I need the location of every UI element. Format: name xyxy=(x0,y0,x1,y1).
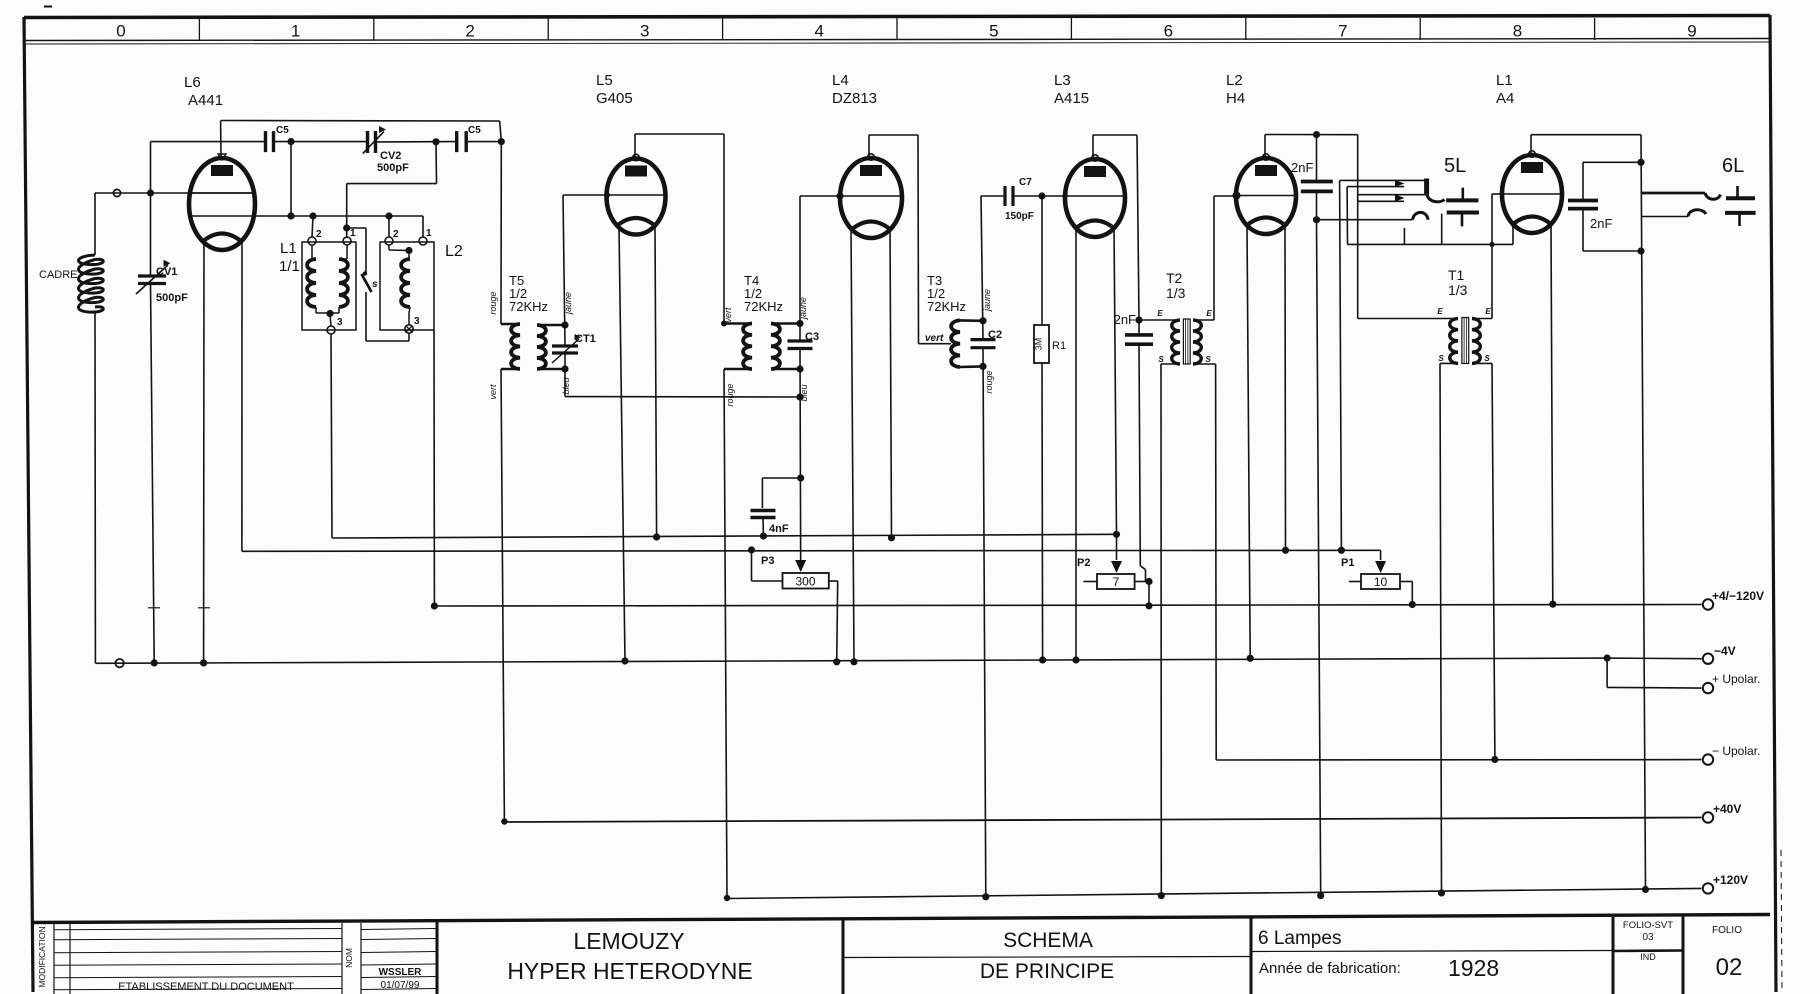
svg-text:C5: C5 xyxy=(468,125,481,136)
node 2nF L1 bottom junction xyxy=(1637,247,1644,254)
svg-text:L1: L1 xyxy=(1496,72,1513,89)
wire 5L top line xyxy=(1340,179,1427,181)
wire 4nF branch xyxy=(762,477,800,479)
svg-text:5: 5 xyxy=(989,22,998,41)
svg-text:rouge: rouge xyxy=(984,370,994,393)
svg-text:rouge: rouge xyxy=(725,383,735,406)
terminal circle on grid wire xyxy=(113,189,120,196)
svg-text:+ Upolar.: + Upolar. xyxy=(1712,672,1760,686)
wire L4 plate line right xyxy=(869,134,918,136)
svg-text:2: 2 xyxy=(316,229,322,240)
svg-text:L1: L1 xyxy=(280,240,297,257)
svg-text:9: 9 xyxy=(1687,22,1696,41)
inductor CADRE frame antenna xyxy=(79,255,104,312)
capacitor 2nF L2 xyxy=(1301,180,1333,184)
capacitor 2nF L1 xyxy=(1568,199,1598,203)
wire C5 to CV2 xyxy=(274,141,368,143)
node -4V L4 filament xyxy=(850,658,857,665)
terminal +4/-120V xyxy=(1703,599,1713,609)
capacitor CV1 plates xyxy=(138,274,166,277)
node -4V L5 filament xyxy=(621,657,628,664)
wire cadre top lead xyxy=(94,193,96,255)
node anode-C5-T5 junction xyxy=(498,138,505,145)
terminal - Upolar xyxy=(1703,754,1713,764)
svg-text:72KHz: 72KHz xyxy=(509,299,548,314)
node +120V 2nF L2 xyxy=(1317,892,1324,899)
node P3 on -4V rail xyxy=(833,658,840,665)
node +120V L1 plate xyxy=(1642,886,1649,893)
node 4nF branch junction xyxy=(797,474,804,481)
svg-text:2: 2 xyxy=(393,229,399,240)
svg-text:2: 2 xyxy=(465,22,474,41)
scan dash top left xyxy=(44,6,52,8)
node L3 plate T2 junction xyxy=(1135,316,1142,323)
wire T3 rouge down to +120V xyxy=(983,348,986,897)
wire 2nF L3 top stub xyxy=(1138,320,1140,335)
capacitor C5 first xyxy=(264,131,267,152)
wire pin2 jog to coil top xyxy=(388,245,390,250)
pin mark L4 grid xyxy=(837,193,843,199)
wire L2 anode up xyxy=(1264,135,1266,159)
svg-text:C7: C7 xyxy=(1019,177,1032,188)
inductor T5 secondary xyxy=(537,325,546,369)
wire L6 grid line xyxy=(95,192,255,194)
node T3 top xyxy=(979,317,986,324)
wire 2nF L2 bottom stub xyxy=(1316,191,1318,219)
pin mark L1 grid xyxy=(1500,192,1505,197)
ruler band bottom line xyxy=(25,39,1770,41)
svg-text:jaune: jaune xyxy=(982,289,992,312)
svg-text:E: E xyxy=(1206,309,1212,318)
wire 5L feed lower xyxy=(1358,200,1404,202)
svg-text:2nF: 2nF xyxy=(1291,160,1313,175)
wire 5L bottom rail xyxy=(1348,243,1514,245)
modification table rows xyxy=(54,929,342,930)
svg-text:−4V: −4V xyxy=(1714,644,1736,658)
svg-text:vert: vert xyxy=(723,307,733,323)
potentiometer P1 box xyxy=(1361,574,1400,589)
wire T5 primary bottom down xyxy=(501,369,504,822)
wire T1 E left feed xyxy=(1358,318,1458,320)
wire L5 plate down to T4 xyxy=(723,134,725,324)
svg-text:500pF: 500pF xyxy=(377,162,409,174)
inductor L1 primary xyxy=(307,259,316,307)
wire 6L feed lower xyxy=(1642,216,1688,218)
inductor L2 winding xyxy=(401,259,410,307)
node C5-cathode branch xyxy=(287,138,294,145)
inductor T3 winding xyxy=(951,320,960,367)
wire L5 grid vertical xyxy=(563,195,565,346)
svg-text:L2: L2 xyxy=(1226,72,1243,89)
node rail L1 filament xyxy=(1549,601,1556,608)
pin 2 of L1 xyxy=(308,237,316,245)
pin 1 of L2 xyxy=(419,237,427,245)
wire +40V rail xyxy=(504,818,1701,823)
pin 2 of L2 xyxy=(385,237,393,245)
wire T2 E right up to L2 grid xyxy=(1193,319,1214,321)
node 2nF L2 bottom junction xyxy=(1313,216,1320,223)
wire L4 filament right down xyxy=(890,227,892,538)
wire common to pin3 xyxy=(330,314,331,327)
wire +4/-120V rail xyxy=(434,605,1701,607)
pin mark L2 grid xyxy=(1233,192,1239,198)
capacitor CV2 arrow xyxy=(363,132,384,154)
svg-text:E: E xyxy=(1485,307,1491,316)
folio-svt cell divider xyxy=(1613,949,1683,952)
svg-text:CT1: CT1 xyxy=(575,333,596,345)
svg-text:bleu: bleu xyxy=(561,377,571,394)
tube L1 A4 xyxy=(1502,155,1562,233)
lampes cell divider xyxy=(1251,951,1613,952)
wire AVC line T5 to T4 xyxy=(565,396,800,398)
electrode bar 5L xyxy=(1424,179,1429,195)
core T1 xyxy=(1462,318,1469,364)
wire P3 right lead xyxy=(829,580,838,582)
pin mark L5 grid xyxy=(605,192,610,197)
wire 6L feed upper xyxy=(1642,192,1705,195)
node +120V corner xyxy=(724,895,730,901)
svg-text:C5: C5 xyxy=(276,125,289,136)
svg-text:1: 1 xyxy=(291,22,300,41)
wire P2 right lead xyxy=(1135,581,1149,583)
wire T2 E left lead xyxy=(1139,319,1180,321)
wire 5L outer left vertical xyxy=(1340,180,1342,550)
svg-text:A415: A415 xyxy=(1054,90,1089,107)
wire L4 anode up xyxy=(868,135,870,158)
wire C7 to L3 grid xyxy=(1013,195,1065,197)
wire T4 bleu vertical xyxy=(799,349,802,572)
wire L2 filament left down xyxy=(1247,227,1250,658)
svg-text:150pF: 150pF xyxy=(1005,211,1034,222)
pin 3 of L2 earthed xyxy=(405,325,413,333)
node rail start L2 box xyxy=(431,602,438,609)
svg-text:CV1: CV1 xyxy=(156,266,177,278)
wire T1 S right down to -Upolar xyxy=(1472,362,1492,364)
wire L1 plate down to +120V xyxy=(1641,135,1646,890)
node cathode-C5 junction xyxy=(287,212,294,219)
wire L4 filament left down xyxy=(851,227,854,662)
svg-text:3M: 3M xyxy=(1034,338,1044,351)
svg-text:DZ813: DZ813 xyxy=(832,90,877,107)
wire T2 S right down to -Upolar xyxy=(1193,363,1216,365)
wire T1 S left down to +120V xyxy=(1440,362,1458,364)
border frame outer xyxy=(24,16,1770,18)
wire L3 plate line right xyxy=(1093,134,1137,136)
svg-text:A441: A441 xyxy=(188,92,223,109)
wire CV1 bottom to -4V rail xyxy=(151,284,155,663)
terminal + Upolar xyxy=(1703,683,1713,693)
ruler cell dividers xyxy=(198,18,200,40)
wire grid branch down-left jog xyxy=(435,142,438,184)
arrow 5L upper xyxy=(1395,180,1405,187)
wire T1 E right to L1 grid xyxy=(1472,318,1492,320)
svg-text:CADRE: CADRE xyxy=(39,269,78,281)
svg-text:7: 7 xyxy=(1338,22,1347,41)
inductor L1 secondary xyxy=(339,259,348,307)
svg-text:6L: 6L xyxy=(1722,155,1744,177)
wire P3 left lead xyxy=(752,580,783,582)
node 2nF L2 tap xyxy=(1313,131,1320,138)
capacitor 4nF xyxy=(751,509,776,512)
svg-text:4nF: 4nF xyxy=(769,523,789,535)
svg-text:E: E xyxy=(1157,309,1163,318)
wire coil bottom to pin3 xyxy=(408,313,410,325)
svg-text:S: S xyxy=(1438,354,1444,363)
wire pin1 from grid jog xyxy=(346,237,348,238)
svg-text:1/3: 1/3 xyxy=(1166,285,1186,301)
svg-text:R1: R1 xyxy=(1052,340,1066,352)
transformer L2 box xyxy=(380,242,434,330)
wire L3 anode up xyxy=(1092,135,1094,159)
svg-text:SCHEMA: SCHEMA xyxy=(1003,929,1093,952)
svg-text:1: 1 xyxy=(426,228,432,239)
svg-text:IND: IND xyxy=(1640,952,1656,962)
svg-text:MODIFICATION: MODIFICATION xyxy=(37,926,47,987)
svg-text:− Upolar.: − Upolar. xyxy=(1712,744,1760,758)
wire CV2 to C5 second xyxy=(376,141,457,143)
wire L6 cathode corner to pin1 xyxy=(422,216,424,237)
svg-text:HYPER HETERODYNE: HYPER HETERODYNE xyxy=(507,958,752,984)
svg-text:vert: vert xyxy=(925,333,944,344)
svg-text:2nF: 2nF xyxy=(1590,216,1612,231)
wire line A pin3 bus xyxy=(332,534,1117,538)
wire L1 pin3 down xyxy=(331,334,332,538)
svg-text:LEMOUZY: LEMOUZY xyxy=(573,928,684,954)
svg-text:L2: L2 xyxy=(445,243,463,260)
wire L2 box right side down to +4V rail xyxy=(433,330,435,606)
svg-text:S: S xyxy=(1484,354,1490,363)
svg-text:P2: P2 xyxy=(1077,557,1090,569)
wire 2nF L1 top stub xyxy=(1583,161,1641,163)
svg-text:S: S xyxy=(1158,355,1164,364)
wire L4 grid vertical upper xyxy=(799,196,801,341)
svg-text:6: 6 xyxy=(1164,22,1173,41)
wire 4nF bottom to line A xyxy=(762,518,764,537)
tick artifact on CV1 drop xyxy=(148,607,160,609)
hook 5L lower xyxy=(1413,212,1429,219)
tube L2 H4 xyxy=(1236,158,1296,234)
node +120V T2 xyxy=(1158,892,1165,899)
svg-text:01/07/99: 01/07/99 xyxy=(381,980,420,991)
wire L2 anode feed vertical xyxy=(1357,135,1359,319)
svg-text:A4: A4 xyxy=(1496,90,1514,107)
capacitor CT1 arrow xyxy=(552,339,579,363)
node L1 pin1 branch xyxy=(343,224,350,231)
svg-text:1: 1 xyxy=(350,228,356,239)
wire L6 anode up xyxy=(220,121,222,159)
node T4 primary top xyxy=(721,321,727,327)
svg-text:CV2: CV2 xyxy=(380,150,401,162)
node line B L2 filament xyxy=(1282,547,1289,554)
node T4 secondary bottom xyxy=(796,365,803,372)
tube L6 A441 xyxy=(189,158,255,250)
node T5 secondary bottom xyxy=(561,365,568,372)
svg-text:L4: L4 xyxy=(832,72,849,89)
svg-text:NOM: NOM xyxy=(344,948,354,968)
wire 5L second rect top xyxy=(1347,186,1404,188)
hook 6L upper xyxy=(1705,193,1721,199)
pin mark L3 grid xyxy=(1063,194,1068,199)
transformer L1 box xyxy=(302,242,356,330)
svg-text:S: S xyxy=(1205,355,1211,364)
wire L1 plate line right xyxy=(1531,134,1641,136)
wire L6 filament right down to line B xyxy=(241,242,243,551)
svg-text:L6: L6 xyxy=(184,74,201,91)
title block divider verticals xyxy=(436,922,439,994)
wire T3 jaune up to L3 grid xyxy=(981,196,983,340)
tube L5 G405 xyxy=(607,159,666,235)
tube L3 A415 xyxy=(1065,159,1125,237)
svg-text:G405: G405 xyxy=(596,90,633,107)
arrow P3 wiper xyxy=(795,560,806,572)
inductor T4 primary xyxy=(724,322,752,325)
capacitor 2nF L3 xyxy=(1125,333,1153,337)
node P2 wiper junction xyxy=(1113,531,1120,538)
resistor R1 xyxy=(1041,196,1043,325)
node T5 secondary top xyxy=(561,321,568,328)
wire L3 filament right down to P2 xyxy=(1114,226,1117,534)
wire L3 filament left down xyxy=(1075,226,1077,660)
svg-text:s: s xyxy=(372,279,378,290)
svg-text:+4/−120V: +4/−120V xyxy=(1712,589,1764,603)
wire L5 plate line right xyxy=(635,133,724,135)
wire L6 cathode line xyxy=(189,215,423,217)
svg-text:3: 3 xyxy=(337,317,343,328)
wire 2nF L2 top stub xyxy=(1316,135,1318,182)
wire 5L return line xyxy=(1319,219,1413,221)
svg-text:E: E xyxy=(1437,307,1443,316)
core T2 xyxy=(1183,319,1190,364)
node L1 common xyxy=(326,310,333,317)
potentiometer P3 box xyxy=(783,573,829,589)
pin 3 of L1 xyxy=(327,326,335,334)
node -4V R1 xyxy=(1039,656,1046,663)
wire C5 branch down to cathode xyxy=(290,142,292,216)
wire L5 filament right down xyxy=(655,227,657,537)
svg-text:H4: H4 xyxy=(1226,90,1245,107)
wire 2nF L1 bottom stub xyxy=(1582,209,1584,251)
capacitor CV1 arrow xyxy=(136,265,168,294)
arrow P2 wiper xyxy=(1116,534,1118,560)
capacitor C5 second xyxy=(455,131,458,152)
node line A L5 filament xyxy=(653,533,660,540)
svg-text:5L: 5L xyxy=(1444,155,1466,177)
wire line B grid bias bus xyxy=(242,550,1381,551)
wire L4 plate down to T3 xyxy=(917,135,920,344)
node P2 on +4V rail xyxy=(1145,602,1152,609)
node 2nF L1 top junction xyxy=(1637,159,1644,166)
terminal -4V xyxy=(1703,654,1713,664)
svg-text:03: 03 xyxy=(1642,932,1654,943)
node 4nF on line A xyxy=(760,532,767,539)
wire L2 plate line right xyxy=(1265,134,1358,136)
node -4V P3 xyxy=(836,661,838,663)
svg-text:C2: C2 xyxy=(988,329,1002,341)
node line B 5L branch xyxy=(1338,547,1345,554)
node L2 coil top xyxy=(405,247,412,254)
node -4V L2 filament xyxy=(1247,655,1254,662)
svg-text:+120V: +120V xyxy=(1713,873,1748,887)
potentiometer P2 box xyxy=(1097,574,1135,589)
wire coupling line y141 xyxy=(151,141,266,143)
svg-text:rouge: rouge xyxy=(488,291,498,314)
wire 5L rail to cathode riser xyxy=(1512,223,1514,244)
svg-text:8: 8 xyxy=(1513,22,1522,41)
capacitor 5L lower plate xyxy=(1447,211,1479,215)
node line A L4 filament xyxy=(888,534,895,541)
svg-text:L3: L3 xyxy=(1054,72,1071,89)
wire switch to L2 pin3 xyxy=(365,292,367,341)
node pin2 on cathode line xyxy=(385,212,392,219)
node +40V corner xyxy=(501,818,507,824)
svg-text:ETABLISSEMENT DU DOCUMENT: ETABLISSEMENT DU DOCUMENT xyxy=(118,981,294,993)
node P3 on line B xyxy=(748,546,755,553)
wire L4 grid stub xyxy=(800,195,840,197)
svg-text:2nF: 2nF xyxy=(1114,312,1136,327)
wire +Upolar jog xyxy=(1606,658,1608,687)
wire T2 S left down to +120V xyxy=(1161,363,1180,365)
capacitor C2 xyxy=(971,338,996,341)
wire T5 primary top feed xyxy=(500,142,502,324)
svg-text:0: 0 xyxy=(116,22,125,41)
wire 5L inner stub 2 xyxy=(1441,214,1443,245)
svg-text:6 Lampes: 6 Lampes xyxy=(1258,928,1341,949)
arrow 5L lower xyxy=(1395,194,1405,201)
inductor T2 primary xyxy=(1172,320,1180,364)
svg-text:4: 4 xyxy=(815,22,824,41)
capacitor 5L upper plate xyxy=(1446,198,1478,202)
wire L2 filament right down to line B xyxy=(1284,227,1287,550)
wire top line corner down xyxy=(500,121,502,142)
hook 5L upper xyxy=(1427,195,1445,202)
svg-text:FOLIO: FOLIO xyxy=(1712,925,1742,936)
inductor T2 secondary xyxy=(1193,320,1201,364)
inductor T5 primary xyxy=(501,323,520,326)
wire L5 grid stub xyxy=(563,194,607,196)
svg-text:FOLIO-SVT: FOLIO-SVT xyxy=(1623,920,1673,931)
wire -Upolar rail xyxy=(1216,759,1701,761)
wire 5L feed upper xyxy=(1358,194,1427,196)
svg-text:T2: T2 xyxy=(1166,270,1183,286)
wire P1 left stub xyxy=(1349,581,1361,583)
wire P1 right lead xyxy=(1400,581,1412,583)
wire L6 filament left down xyxy=(203,242,205,663)
wire L1 grid stub xyxy=(1492,193,1502,195)
schema cell divider xyxy=(843,957,1251,958)
svg-text:C3: C3 xyxy=(805,331,819,343)
node +120V T3 xyxy=(982,893,989,900)
capacitor 6L lower plate xyxy=(1725,211,1756,215)
node -4V L3 filament xyxy=(1072,656,1079,663)
hook 6L lower xyxy=(1688,210,1706,217)
wire L2 grid stub xyxy=(1214,195,1236,197)
terminal +40V xyxy=(1703,812,1713,822)
svg-text:10: 10 xyxy=(1374,575,1388,589)
arrow P1 wiper xyxy=(1380,550,1382,560)
wire L5 anode up xyxy=(634,134,636,158)
pin 1 of L1 xyxy=(343,237,351,245)
svg-text:72KHz: 72KHz xyxy=(744,299,783,314)
wire -4V to terminal xyxy=(1607,657,1701,660)
node P2 right junction xyxy=(1145,578,1152,585)
node R1 tap xyxy=(1038,192,1045,199)
node -4V CV1 xyxy=(151,659,158,666)
tick artifact on filament drop xyxy=(198,607,210,609)
title block top border xyxy=(33,915,1770,923)
svg-text:Année de fabrication:: Année de fabrication: xyxy=(1259,960,1401,977)
wire 5L second rect left xyxy=(1346,187,1348,245)
tube L4 DZ813 xyxy=(840,158,902,238)
